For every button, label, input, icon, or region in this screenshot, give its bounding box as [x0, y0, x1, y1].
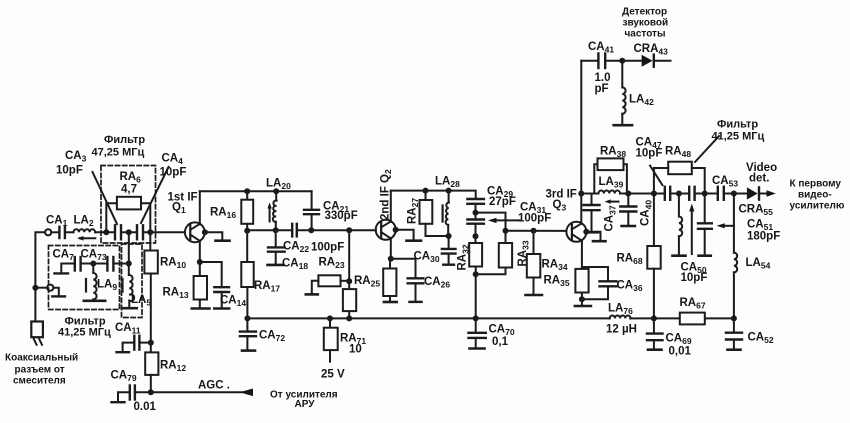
capacitor CA30 [442, 236, 456, 264]
label CA53 [712, 175, 738, 189]
label filter 41.25 left [58, 316, 111, 339]
capacitor CA14 [200, 262, 229, 308]
label RA25 [354, 275, 380, 289]
label CA26 [424, 276, 450, 290]
label CA37 [604, 205, 618, 231]
diode CRA43 [642, 55, 671, 67]
ground stub at bottom terminal [52, 288, 65, 297]
ground bar CA30 [443, 264, 454, 266]
node RA27 top [423, 188, 429, 194]
resistor RA35 [575, 269, 588, 299]
label CA30 [414, 251, 440, 265]
label filter 47.25 [92, 134, 146, 159]
node LA54 top [731, 191, 737, 197]
label CA7 [53, 249, 75, 263]
resistor RA71 [324, 318, 338, 361]
node RA34 top [531, 228, 537, 234]
resistor RA17 [241, 231, 253, 319]
arrow video out [767, 190, 776, 196]
capacitor CA31 [467, 213, 484, 237]
capacitor CA53 [718, 187, 747, 200]
ground bar LA42 [614, 124, 632, 127]
dashed box LA5 [122, 244, 143, 318]
node RA35 bottom [579, 296, 585, 302]
svg-text:0.01: 0.01 [134, 401, 157, 413]
ground Q2 emitter [396, 230, 421, 241]
label CA73 [81, 249, 107, 263]
wire mid bus [247, 229, 376, 231]
wire Q2 bottom [390, 238, 392, 258]
svg-text:47,25 МГц: 47,25 МГц [92, 147, 145, 159]
resistor RA34 [527, 231, 541, 295]
label CA36 [617, 280, 643, 294]
label filter 41.25 right [712, 119, 765, 143]
label LA2 [74, 215, 94, 229]
node bus RA32 [473, 315, 479, 321]
node CA40 top [625, 191, 631, 197]
svg-text:4,7: 4,7 [121, 184, 137, 196]
capacitor CA3 [115, 225, 137, 239]
node filter coil top [676, 191, 682, 197]
wire bottom bus [247, 317, 734, 319]
capacitor CA7 [75, 257, 94, 271]
pointer line CA3 [93, 172, 118, 224]
label CA72 [259, 330, 285, 344]
node Q3 emitter dot [583, 229, 589, 235]
node Q1 bias [197, 259, 203, 265]
capacitor CA29 [467, 199, 484, 213]
resistor RA13 [194, 262, 207, 308]
capacitor CA36 [582, 267, 617, 299]
ground bar LA9 [84, 299, 105, 302]
capacitor CA37 [584, 194, 600, 233]
wire detector branch [581, 60, 598, 62]
ground bar RA13 [192, 307, 210, 310]
label RA6 [120, 171, 142, 196]
node RA23 branch top [346, 227, 352, 233]
arrow AGC input [240, 389, 254, 397]
label CA47 [636, 137, 663, 160]
node Q3 collector [578, 191, 584, 197]
ground RA35 [575, 299, 591, 306]
arrow pointer CA51 [717, 223, 734, 228]
svg-text:0,1: 0,1 [492, 336, 509, 348]
ground bar CA50 [699, 254, 711, 257]
label 100pF mid [311, 242, 344, 254]
label CA51 [747, 219, 780, 243]
resistor RA38 [594, 158, 627, 193]
label CRA43 [634, 43, 669, 57]
node Q2 bias [388, 256, 394, 262]
node below CA29 [473, 210, 479, 216]
svg-text:10pF: 10pF [160, 167, 187, 179]
wire Q3 bottom [581, 240, 583, 269]
ground bar CA52 [728, 348, 741, 351]
label LA28 [435, 176, 460, 190]
label AGC [198, 380, 230, 392]
node RA16 bottom [244, 228, 250, 234]
node CA11 [148, 340, 154, 346]
label CA18 [282, 258, 308, 272]
transistor Q1 [185, 222, 205, 242]
svg-text:100pF: 100pF [311, 242, 344, 254]
svg-text:det.: det. [749, 173, 769, 185]
capacitor CA11 [123, 336, 151, 351]
wire RA27 LA28 bottoms [426, 235, 449, 237]
label LA76 [606, 303, 637, 336]
resistor RA24 [343, 281, 356, 318]
svg-text:звуковой: звуковой [623, 18, 669, 29]
stub bar CA79 [112, 401, 125, 403]
core line LA9 [85, 279, 87, 292]
resistor RA27 [420, 191, 433, 236]
label CA1 [46, 215, 68, 229]
capacitor CA73 [93, 257, 129, 271]
label 0.01 [134, 401, 157, 413]
node bus RA68 [651, 315, 657, 321]
resistor RA12 [145, 352, 158, 392]
node CA31 bottom [473, 233, 479, 239]
svg-text:Детектор: Детектор [622, 7, 667, 18]
label LA5 [131, 294, 151, 308]
svg-text:10pF: 10pF [56, 165, 83, 177]
wire Q1 collector [199, 191, 201, 224]
node LA42 top [619, 58, 625, 64]
node LA20 top [273, 188, 279, 194]
label LA54 [746, 257, 771, 271]
label CA11 [115, 322, 141, 336]
wire node B down to trap [128, 232, 130, 263]
label RA32 [457, 244, 471, 270]
label CA70 [489, 324, 515, 349]
svg-text:частоты: частоты [625, 29, 666, 40]
transistor Q3 [566, 222, 586, 242]
arrow core filter coil [689, 204, 694, 255]
svg-text:0,01: 0,01 [669, 346, 692, 358]
svg-text:10pF: 10pF [636, 148, 663, 160]
label to first video amp [790, 179, 845, 212]
label CRA55 [739, 204, 774, 218]
inductor LA5 [129, 264, 134, 308]
svg-text:АРУ: АРУ [295, 399, 316, 410]
node bus RA71 [327, 315, 333, 321]
label CA14 [220, 295, 246, 309]
wire AGC [151, 391, 242, 393]
node RA23 [346, 278, 352, 284]
label RA38 [600, 146, 626, 160]
stub bar CA11 [117, 351, 130, 353]
core line LA28 [442, 206, 444, 222]
capacitor CA1 [59, 227, 65, 238]
input terminal top [45, 229, 51, 235]
transistor Q2 [376, 220, 396, 240]
capacitor CA79 [118, 386, 151, 402]
svg-text:Фильтр: Фильтр [717, 119, 758, 131]
arrow core LA39 [605, 199, 619, 203]
label RA12 [160, 360, 186, 374]
open stub left of CA7 [55, 264, 75, 274]
node CA30 top [446, 233, 452, 239]
node CA21 bottom [308, 227, 314, 233]
wire top bus Q2 [391, 191, 476, 199]
label RA16 [210, 207, 236, 221]
label CA69 [666, 333, 692, 358]
svg-text:видео-: видео- [798, 190, 832, 201]
svg-text:12 µH: 12 µH [606, 324, 637, 336]
resistor RA32 [469, 236, 482, 318]
svg-text:Коаксиальный: Коаксиальный [5, 353, 78, 364]
ground bar CA72 [242, 349, 255, 352]
wire Q2 collector [390, 191, 392, 222]
label 25V [321, 369, 345, 381]
wire left input rail [35, 232, 44, 321]
label 1st IF Q1 [168, 192, 198, 216]
svg-text:2nd IF Q2: 2nd IF Q2 [379, 169, 393, 220]
resistor RA25 [383, 259, 396, 301]
svg-text:41,25 МГц: 41,25 МГц [712, 131, 765, 143]
node J2 [126, 261, 132, 267]
coax connector J1 [31, 322, 43, 345]
node A [103, 229, 109, 235]
label 2nd IF Q2 [379, 169, 393, 220]
resistor RA48 [654, 162, 705, 194]
arrow under LA2 [77, 236, 95, 241]
capacitor CA18 [268, 252, 284, 265]
pointer line CA4 [141, 167, 169, 223]
resistor RA6 [106, 197, 150, 233]
node B [126, 229, 132, 235]
ground bar CA37 [585, 231, 598, 233]
inductor LA39 [599, 190, 665, 193]
dashed box filter 47.25 MHz [101, 166, 156, 244]
node LA20 bottom [273, 227, 279, 233]
label LA20 [266, 178, 291, 192]
label RA13 [163, 287, 189, 301]
label RA17 [254, 280, 280, 294]
arrow pointer CA31 [488, 218, 520, 223]
ground Q3 emitter [586, 232, 605, 241]
label LA9 [97, 279, 117, 293]
node CA31 bus [503, 228, 509, 234]
svg-text:330pF: 330pF [325, 210, 358, 222]
capacitor CA52 [726, 318, 742, 349]
label LA42 [629, 94, 654, 108]
label from AGC amp [270, 390, 338, 411]
inductor LA2 [65, 229, 115, 232]
node J1 [90, 261, 96, 267]
svg-text:100pF: 100pF [518, 213, 551, 225]
capacitor CA26 [391, 259, 424, 302]
capacitor CA50 [698, 194, 712, 256]
label RA48 [665, 146, 691, 160]
label coax connector [5, 353, 78, 387]
node LA28 top [446, 188, 452, 194]
label RA68 [617, 253, 643, 267]
ground bar RA23 [306, 293, 318, 296]
capacitor CA41 [598, 54, 641, 69]
node bus RA17 [244, 315, 250, 321]
resistor RA68 [647, 194, 660, 319]
ground Q1 emitter [205, 232, 230, 240]
node Q2 emitter dot [393, 227, 399, 233]
svg-text:смесителя: смесителя [13, 376, 66, 387]
label RA34 [542, 259, 568, 273]
wire input to CA1 [51, 231, 59, 233]
svg-text:AGC .: AGC . [198, 380, 230, 392]
node RA16 top [244, 188, 250, 194]
node bus RA24 [346, 315, 352, 321]
svg-text:27pF: 27pF [489, 196, 516, 208]
inductor LA76 [610, 316, 631, 319]
capacitor CA72 [240, 318, 256, 350]
pointer line filter 41.25 [695, 136, 719, 162]
wire mid bus to Q3 [506, 230, 567, 232]
resistor RA23 [312, 275, 349, 293]
label CA52 [748, 332, 774, 346]
svg-text:180pF: 180pF [747, 231, 780, 243]
ground bar filter coil [673, 254, 686, 257]
ground bar CA69 [648, 348, 662, 351]
svg-text:10pF: 10pF [681, 272, 708, 284]
capacitor CA40 [620, 194, 636, 226]
wire top bus Q3 [581, 193, 598, 195]
capacitor CA49 series [689, 187, 718, 200]
label RA35 [544, 275, 570, 289]
label CA50 [681, 262, 708, 285]
label RA23 [319, 257, 345, 271]
ground bar CA26 [410, 301, 422, 303]
ground bar RA25 [384, 301, 397, 304]
label sound detector [622, 7, 668, 40]
ground bar CA14 [214, 307, 229, 310]
capacitor CA21 [304, 191, 319, 230]
node C [147, 229, 153, 235]
svg-text:усилителю: усилителю [790, 201, 845, 212]
capacitor CA70 [469, 318, 486, 348]
label CA21 [323, 201, 358, 223]
node CA50 top [702, 191, 708, 197]
dashed box filter 41.25 MHz trap [49, 246, 120, 310]
arrow core LA20 [267, 203, 271, 222]
capacitor CA4 [137, 225, 185, 239]
wire branch to RA23 [348, 230, 350, 281]
ground bar RA34 [526, 294, 543, 297]
label RA27 [407, 198, 421, 224]
node bus LA54 [731, 315, 737, 321]
inductor LA28 [446, 191, 449, 236]
inductor filter coil LA49 [679, 194, 682, 256]
resistor RA16 [241, 191, 253, 231]
label LA39 [599, 176, 624, 190]
capacitor CA69 [647, 318, 663, 349]
capacitor CA47 [665, 187, 689, 200]
node RA33 join [473, 271, 479, 277]
svg-text:К первому: К первому [790, 179, 842, 190]
resistor RA33 [476, 231, 512, 275]
ground bar CA70 [470, 347, 485, 350]
label CA22 [283, 241, 309, 255]
resistor RA10 [144, 232, 157, 352]
inductor LA54 [734, 194, 737, 319]
node AGC [148, 389, 154, 395]
resistor RA67 [680, 313, 705, 325]
ground bar CA40 [622, 225, 636, 227]
label CA3 value [56, 150, 87, 177]
inductor LA20 [273, 191, 277, 230]
svg-text:pF: pF [595, 83, 609, 95]
label CA31 [518, 202, 551, 225]
capacitor CA22 series 100pF [292, 224, 297, 237]
label video det [746, 162, 777, 185]
capacitor CA22 shunt [268, 230, 285, 251]
wire Q1 bottom [199, 241, 201, 262]
label 3rd IF Q3 [546, 189, 577, 213]
node RA68 top [651, 191, 657, 197]
node Q1 emitter dot [202, 229, 208, 235]
diode CRA55 [747, 187, 767, 199]
svg-text:разъем от: разъем от [15, 365, 65, 376]
wire top bus Q1 [200, 190, 312, 192]
svg-text:Фильтр: Фильтр [104, 134, 145, 146]
label CA40 [640, 200, 654, 226]
input terminal bottom [47, 285, 53, 291]
svg-text:41,25 МГц: 41,25 МГц [58, 327, 111, 339]
svg-text:25 V: 25 V [321, 369, 345, 381]
pointer line CA47 [650, 166, 662, 186]
label CA29 [487, 186, 516, 209]
label RA67 [680, 297, 706, 311]
label CA79 [111, 370, 137, 384]
wire Q3 collector riser to CA41 [580, 61, 582, 224]
node bottom rail [32, 285, 47, 291]
label CA41 [588, 41, 614, 95]
ground bar LA5 [122, 307, 136, 310]
wire CA29 node to bus right [476, 213, 506, 231]
label RA71 [340, 333, 366, 356]
label CA4 value [160, 153, 187, 179]
inductor LA9 [93, 264, 96, 301]
core line LA5 [121, 279, 123, 292]
label RA10 [160, 257, 186, 271]
inductor LA42 [622, 61, 625, 125]
label RA33 [517, 240, 531, 266]
svg-text:10: 10 [349, 344, 362, 356]
